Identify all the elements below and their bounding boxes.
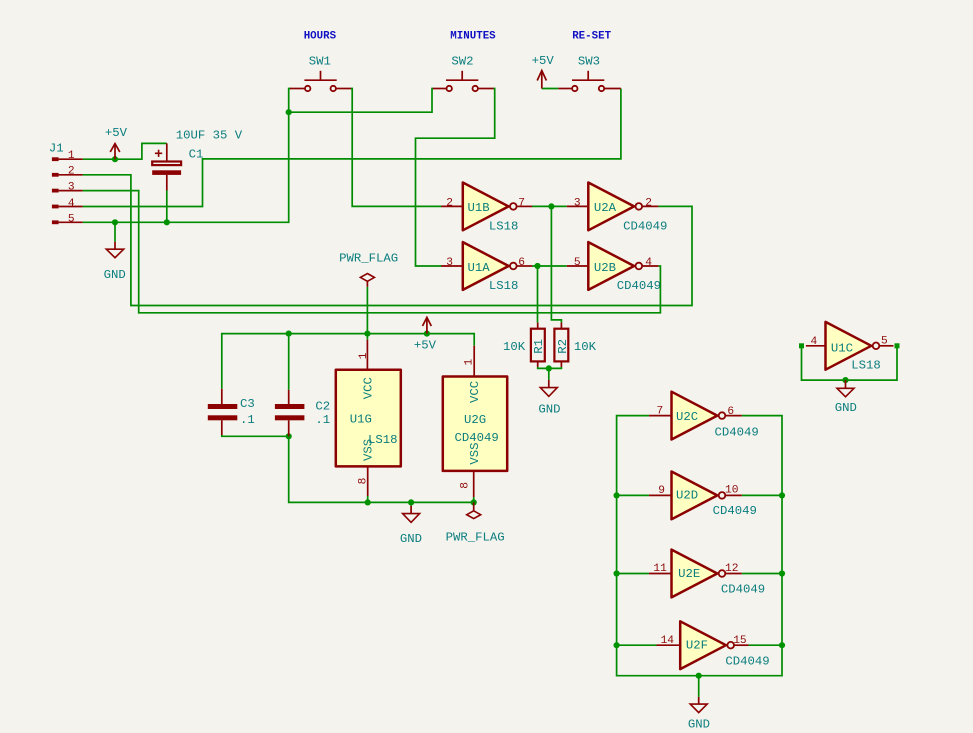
- wire U2C-U2F input rail and output rail with bottom GND bar: [617, 416, 782, 676]
- capacitor C2 .1: [275, 390, 330, 437]
- svg-text:4: 4: [811, 336, 818, 348]
- inverter U1B (LS18): [441, 183, 532, 234]
- svg-text:5: 5: [881, 335, 888, 347]
- svg-text:CD4049: CD4049: [715, 425, 759, 439]
- svg-text:U2E: U2E: [678, 567, 700, 581]
- junction U1A output node: [534, 263, 540, 269]
- wire U1A output node down to R1 top: [537, 266, 539, 323]
- svg-text:7: 7: [657, 405, 664, 417]
- wire SW1 left to SW2 left: [289, 89, 434, 113]
- svg-text:U2C: U2C: [676, 410, 698, 424]
- junction U1B output node: [548, 203, 554, 209]
- svg-text:PWR_FLAG: PWR_FLAG: [446, 531, 505, 545]
- power flag PWR_FLAG on +5V rail: [339, 252, 398, 287]
- wire U1C input and output tied to GND bar: [802, 346, 898, 380]
- J1 pin 2: [52, 165, 83, 177]
- svg-text:U2G: U2G: [464, 413, 486, 427]
- svg-text:5: 5: [574, 257, 581, 269]
- ground symbol below U1C: [835, 380, 857, 415]
- svg-text:6: 6: [518, 257, 525, 269]
- svg-text:CD4049: CD4049: [721, 582, 765, 596]
- junction U2F input on rail: [614, 642, 620, 648]
- svg-text:MINUTES: MINUTES: [450, 31, 496, 43]
- svg-text:VCC: VCC: [468, 381, 482, 403]
- svg-text:R1: R1: [532, 339, 546, 354]
- capacitor C3 .1: [208, 389, 255, 435]
- svg-text:C3: C3: [240, 397, 255, 411]
- resistor R1 10K: [503, 323, 546, 367]
- junction +5V arrow on rail: [424, 331, 430, 337]
- svg-text:+5V: +5V: [105, 126, 128, 140]
- svg-text:C1: C1: [189, 147, 204, 161]
- svg-text:LS18: LS18: [489, 219, 519, 233]
- svg-text:1: 1: [464, 359, 476, 366]
- junction R1 R2 GND node: [546, 365, 552, 371]
- svg-text:C2: C2: [315, 400, 330, 414]
- svg-text:+5V: +5V: [532, 54, 555, 68]
- wire PWR_FLAG stem to +5V rail: [366, 287, 368, 334]
- J1 pin 4: [52, 198, 83, 210]
- ground symbol below U2F chain: [688, 697, 710, 732]
- svg-text:7: 7: [518, 197, 525, 209]
- svg-text:HOURS: HOURS: [304, 31, 337, 43]
- svg-text:GND: GND: [400, 532, 422, 546]
- svg-text:14: 14: [661, 635, 675, 647]
- svg-text:CD4049: CD4049: [617, 279, 661, 293]
- svg-text:U2F: U2F: [686, 639, 708, 653]
- wire U1A output to U2B input: [532, 265, 567, 267]
- wire +5V rail from C3 top to U2G VCC pin: [222, 334, 474, 389]
- connector J1: [49, 142, 64, 156]
- junction U2E input on rail: [614, 570, 620, 576]
- svg-text:VSS: VSS: [468, 442, 482, 464]
- ground symbol on GND rail: [400, 506, 422, 546]
- svg-text:2: 2: [68, 165, 75, 177]
- wire J1 pin3 feedback net from U2B output: [83, 191, 661, 313]
- svg-text:U1G: U1G: [350, 412, 372, 426]
- wire U1B output node down to R2 top: [551, 206, 561, 322]
- svg-text:8: 8: [358, 478, 370, 485]
- svg-text:6: 6: [727, 406, 734, 418]
- svg-text:10: 10: [725, 485, 739, 497]
- capacitor C1: [152, 129, 243, 191]
- inverter U2A (CD4049): [567, 183, 668, 234]
- ground symbol below R1 R2: [538, 380, 560, 417]
- svg-text:4: 4: [68, 198, 75, 210]
- J1 pin 1: [52, 150, 83, 162]
- junction +5V at J1 pin1: [112, 156, 118, 162]
- svg-text:LS18: LS18: [851, 359, 881, 373]
- svg-text:U2D: U2D: [676, 489, 698, 503]
- wire U1B output to U2A input: [532, 205, 567, 207]
- ground symbol at J1 pin5: [104, 242, 126, 282]
- svg-text:SW2: SW2: [451, 55, 473, 69]
- junction U2G VSS pin and PWR_FLAG on GND rail: [471, 497, 477, 506]
- junction GND symbol on GND rail: [408, 499, 414, 506]
- junction U1C GND node: [842, 377, 848, 383]
- inverter U2C (CD4049): [649, 392, 759, 440]
- svg-text:3: 3: [446, 257, 453, 269]
- wire U2E output stub: [742, 573, 782, 575]
- wire R1 R2 bottoms to GND: [538, 367, 562, 380]
- svg-text:CD4049: CD4049: [713, 504, 757, 518]
- junction U2F output on rail: [779, 642, 785, 648]
- junction C2 top on +5V rail: [286, 331, 292, 337]
- svg-text:GND: GND: [104, 268, 126, 282]
- junction U2D output on rail: [779, 492, 785, 498]
- svg-text:GND: GND: [538, 402, 560, 416]
- inverter U2B (CD4049): [567, 242, 661, 293]
- svg-text:U1B: U1B: [468, 201, 490, 215]
- resistor R2 10K: [554, 323, 596, 367]
- switch SW2 MINUTES: [433, 31, 496, 92]
- wire U2D input stub: [617, 494, 649, 496]
- svg-text:CD4049: CD4049: [455, 431, 499, 445]
- junction C1 bottom on pin5 net: [164, 190, 170, 225]
- junction SW1 left and SW2 left common net: [286, 109, 292, 115]
- wire C2 bottom node down to GND rail: [289, 436, 474, 502]
- svg-text:.1: .1: [315, 413, 330, 427]
- svg-text:9: 9: [658, 485, 665, 497]
- power symbol +5V at J1 pin1: [105, 126, 128, 159]
- svg-text:5: 5: [68, 214, 75, 226]
- junction C2 bottom node: [286, 433, 292, 439]
- svg-text:LS18: LS18: [489, 279, 519, 293]
- svg-text:3: 3: [68, 182, 75, 194]
- svg-text:R2: R2: [556, 339, 570, 354]
- svg-text:10K: 10K: [574, 340, 597, 354]
- inverter U2F (CD4049): [657, 621, 770, 669]
- J1 pin 5: [52, 214, 83, 226]
- wire C3 bottom to C2 bottom: [222, 435, 289, 437]
- power symbol +5V at SW3: [532, 54, 555, 88]
- switch SW3 RE-SET: [558, 31, 621, 92]
- wire C2 top to +5V rail: [288, 334, 290, 390]
- svg-text:11: 11: [653, 563, 667, 575]
- svg-text:GND: GND: [688, 718, 710, 732]
- svg-text:+5V: +5V: [414, 339, 437, 353]
- wire SW1 right terminal to U1B input: [351, 89, 442, 207]
- svg-text:SW3: SW3: [578, 55, 600, 69]
- inverter U2D (CD4049): [649, 472, 757, 520]
- power symbol +5V on rail: [414, 317, 437, 352]
- svg-text:LS18: LS18: [368, 433, 398, 447]
- svg-text:8: 8: [459, 482, 471, 489]
- svg-text:U1C: U1C: [831, 341, 853, 355]
- junction GND stub at J1 pin5: [112, 219, 118, 242]
- switch SW1 HOURS: [290, 31, 351, 92]
- svg-text:U2A: U2A: [594, 201, 617, 215]
- svg-text:1: 1: [68, 150, 75, 162]
- svg-text:12: 12: [725, 563, 738, 575]
- IC power unit U2G (CD4049): [443, 346, 507, 497]
- J1 pin 3: [52, 182, 83, 194]
- svg-text:CD4049: CD4049: [725, 654, 769, 668]
- wire U2F output stub: [749, 644, 783, 646]
- svg-text:10UF 35 V: 10UF 35 V: [176, 129, 243, 143]
- junction U1G VCC pin on +5V rail: [364, 331, 370, 340]
- svg-text:10K: 10K: [503, 340, 526, 354]
- wire U2D output stub: [742, 494, 782, 496]
- svg-text:1: 1: [358, 352, 370, 359]
- svg-text:4: 4: [645, 257, 652, 269]
- wire J1 pin5 GND net to SW1 left terminal: [83, 89, 291, 223]
- junction GND tap on bottom bar: [696, 673, 702, 697]
- wire J1 pin4 net to SW3 right terminal: [83, 89, 621, 207]
- svg-text:U1A: U1A: [468, 261, 491, 275]
- junction U2D input on rail: [614, 492, 620, 498]
- junction U2E output on rail: [779, 570, 785, 576]
- wire U2E input stub: [617, 573, 649, 575]
- svg-text:CD4049: CD4049: [623, 219, 667, 233]
- IC power unit U1G (LS18): [336, 340, 401, 496]
- power flag PWR_FLAG on GND rail: [446, 502, 505, 544]
- node U1C input wire end square: [799, 343, 804, 348]
- wire J1 pin1 to +5V and C1 top: [83, 143, 167, 159]
- inverter U1A (LS18): [441, 242, 532, 293]
- svg-text:RE-SET: RE-SET: [572, 31, 611, 43]
- wire +5V stub to SW3 left terminal: [542, 88, 559, 90]
- svg-text:.1: .1: [240, 413, 255, 427]
- svg-text:VCC: VCC: [362, 377, 376, 399]
- svg-text:3: 3: [574, 197, 581, 209]
- inverter U1C (LS18): [806, 322, 894, 373]
- svg-text:2: 2: [446, 197, 453, 209]
- svg-text:J1: J1: [49, 142, 64, 156]
- node U1C output wire end square: [895, 343, 900, 348]
- svg-text:PWR_FLAG: PWR_FLAG: [339, 252, 398, 266]
- svg-text:SW1: SW1: [309, 55, 331, 69]
- svg-text:2: 2: [645, 197, 652, 209]
- junction U1G VSS pin on GND rail: [365, 496, 371, 506]
- wire J1 pin2 feedback net from U2A output: [83, 175, 692, 306]
- inverter U2E (CD4049): [649, 550, 765, 598]
- svg-text:U2B: U2B: [594, 261, 616, 275]
- wire U2F input stub: [617, 644, 657, 646]
- svg-text:15: 15: [733, 635, 746, 647]
- wire SW2 right terminal to U1A input: [416, 89, 495, 267]
- svg-text:GND: GND: [835, 401, 857, 415]
